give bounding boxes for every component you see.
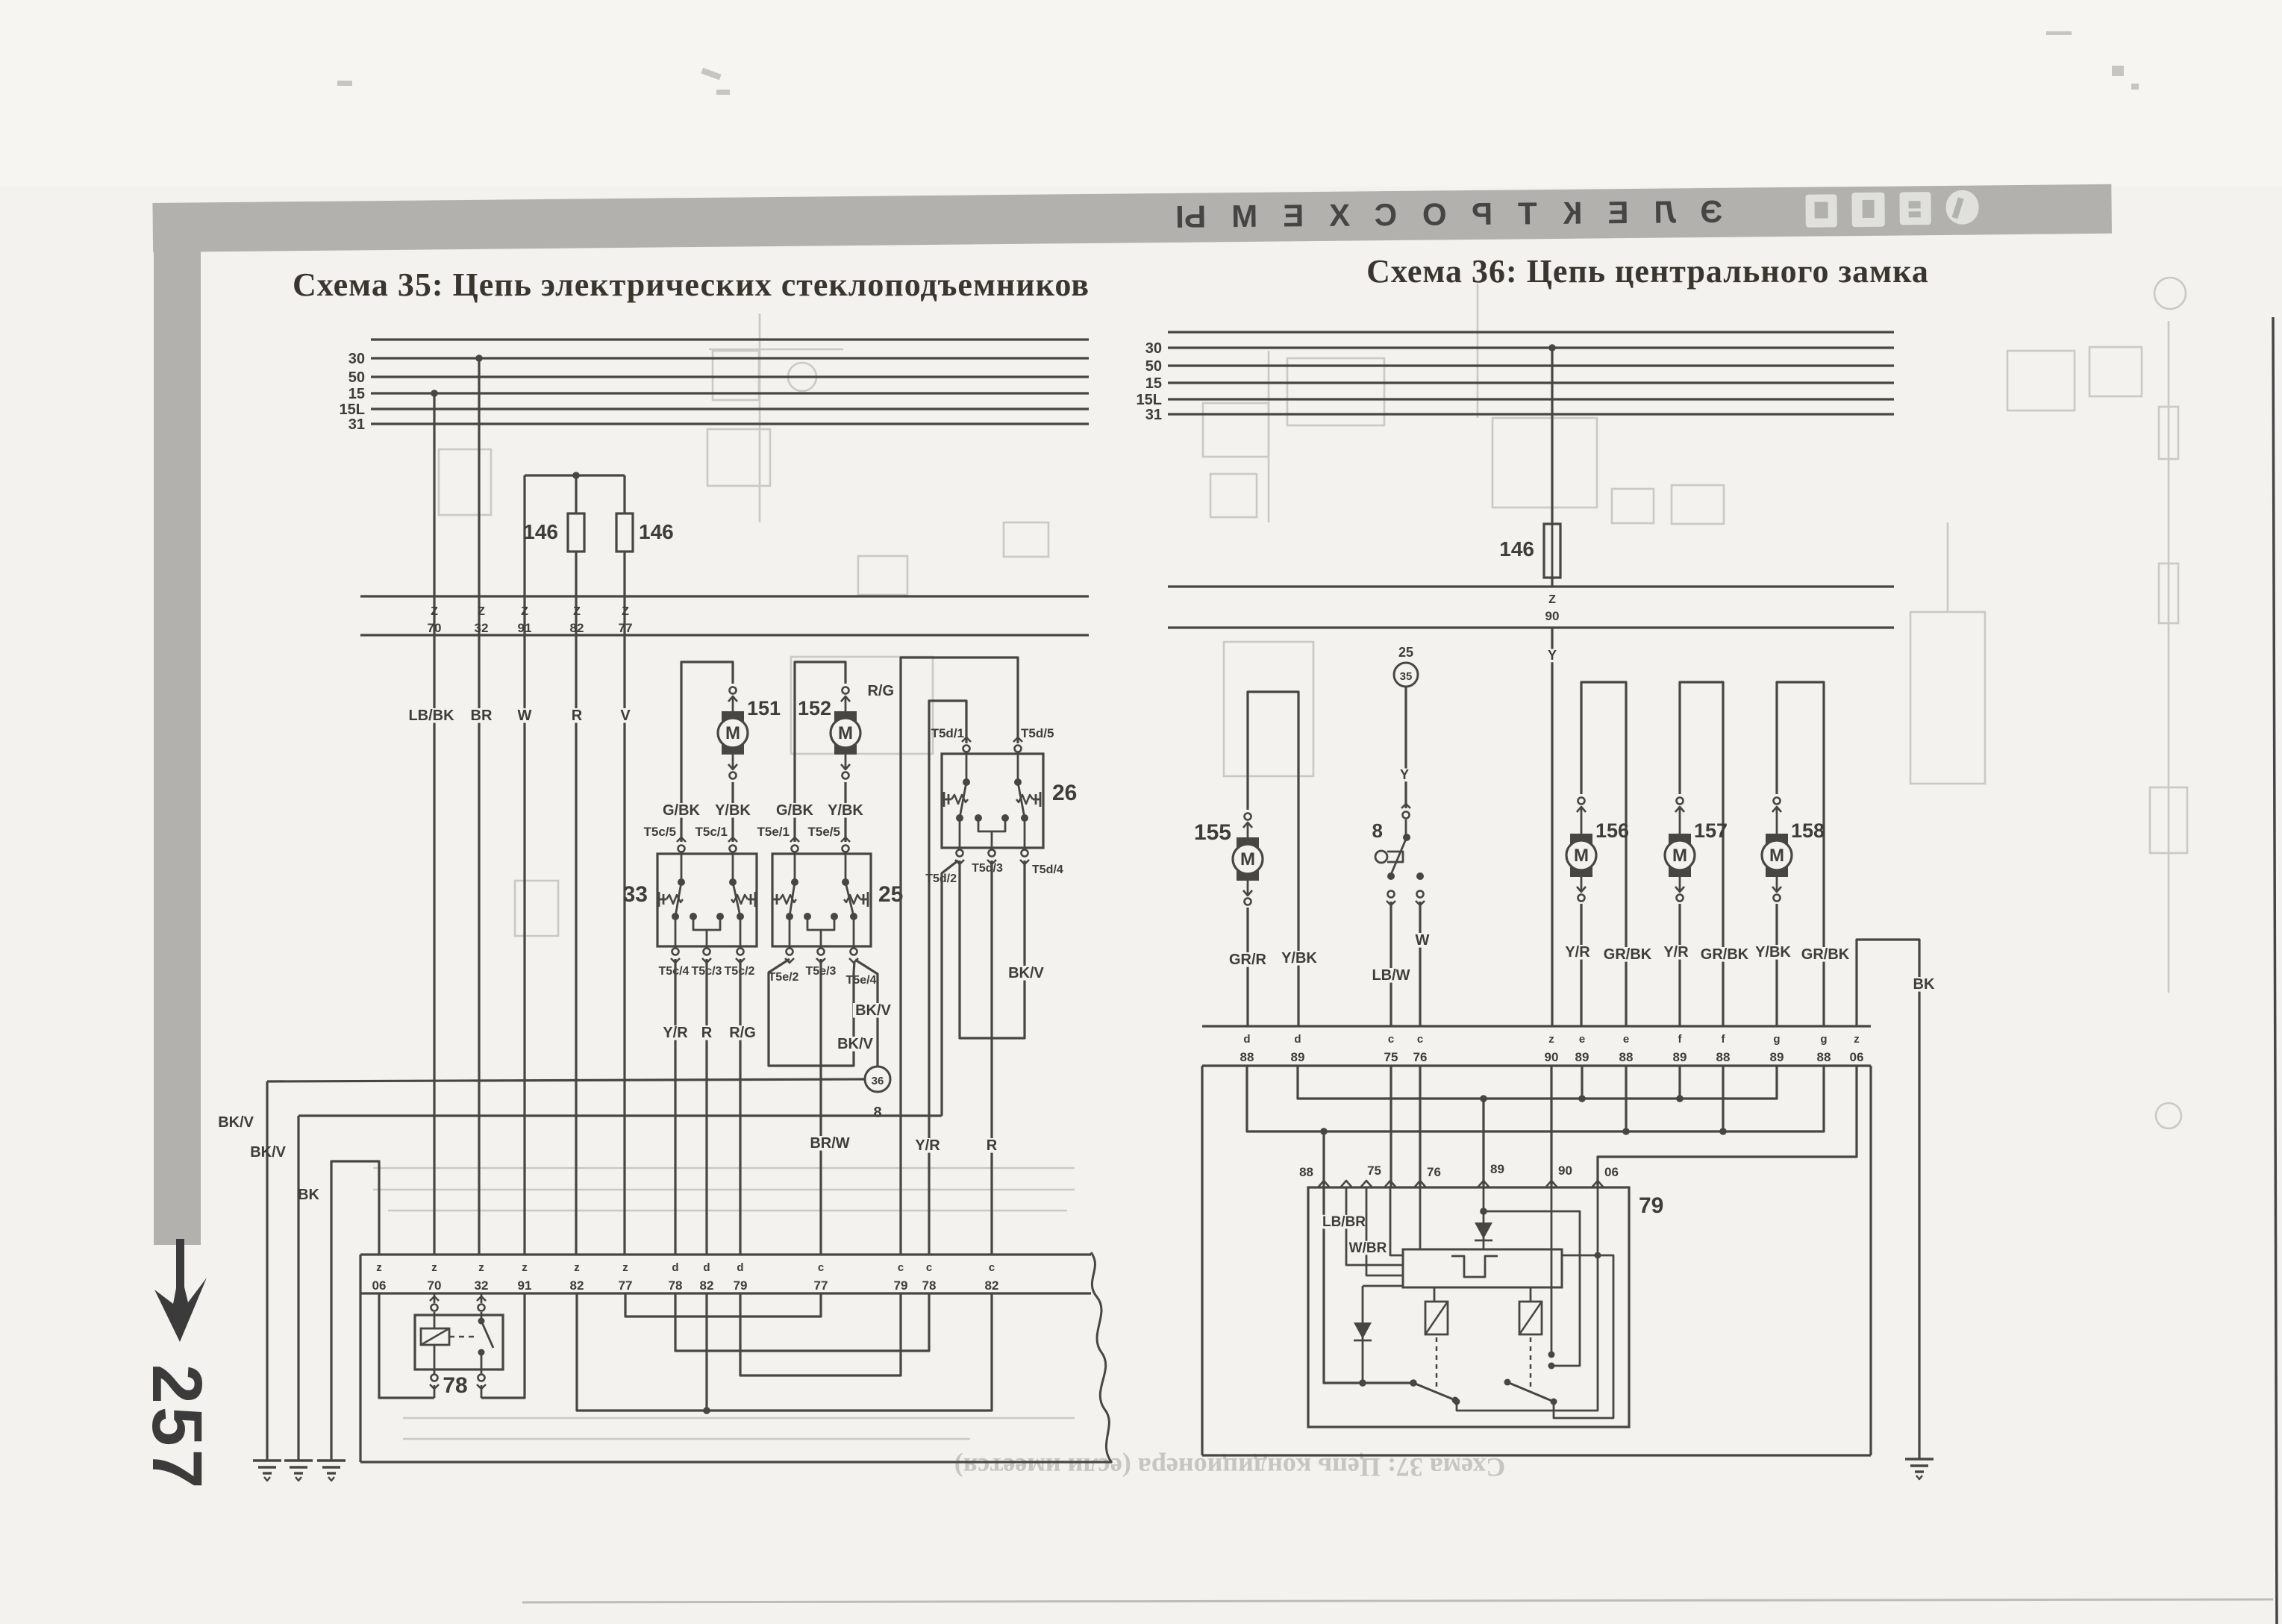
node junction fuse feed bbox=[572, 472, 580, 479]
right page edge line bbox=[2273, 317, 2277, 1624]
switch 33 pole 1 blade and contact bbox=[681, 854, 683, 882]
svg-text:88: 88 bbox=[1619, 1050, 1634, 1064]
wire fuse to Z-bus bbox=[1551, 578, 1553, 587]
svg-text:BK/V: BK/V bbox=[250, 1144, 286, 1161]
svg-text:158: 158 bbox=[1791, 819, 1825, 842]
svg-text:91: 91 bbox=[518, 1278, 532, 1293]
frame bottom line (scheme 36) bbox=[1202, 1454, 1871, 1456]
wire z91 below strip to relay switch return bbox=[481, 1293, 525, 1398]
svg-text:30: 30 bbox=[348, 351, 365, 367]
unit 79 dashed link coil2 bbox=[1530, 1337, 1532, 1387]
connector strip (scheme 35) upper line bbox=[360, 1253, 1091, 1255]
pin T5e/1 bbox=[792, 846, 798, 852]
page-number arrow pointing down bbox=[154, 1239, 207, 1342]
svg-text:Z: Z bbox=[431, 605, 438, 618]
wire Y/R from T5c/4 to strip d78 bbox=[674, 959, 676, 1255]
relay 78 dashed actuator link bbox=[449, 1336, 478, 1338]
wire GR/R motor 155 to strip d88 bbox=[1246, 908, 1248, 1026]
wire label BK/V on T5d/4 leg bbox=[1006, 966, 1046, 981]
svg-text:Y/R: Y/R bbox=[663, 1025, 688, 1041]
wire loop over motor 151 bbox=[681, 662, 733, 842]
svg-text:Y/BK: Y/BK bbox=[715, 802, 751, 819]
Z-bus lower line (scheme 35) bbox=[360, 634, 1089, 636]
wire loop over motor 155 bbox=[1248, 692, 1298, 1026]
ground symbol BK (scheme 36) bbox=[1905, 1458, 1934, 1460]
svg-text:T5d/3: T5d/3 bbox=[972, 862, 1003, 875]
svg-text:z: z bbox=[522, 1261, 528, 1274]
pin T5e/4 bbox=[851, 949, 857, 955]
ghost mirrored next-page title show-through bbox=[954, 1452, 1505, 1482]
svg-text:50: 50 bbox=[1145, 358, 1162, 375]
wire R/G from T5c/2 to strip d79 bbox=[739, 959, 741, 1255]
unit 79 pin 90 bbox=[1546, 1181, 1557, 1187]
svg-text:Z: Z bbox=[622, 605, 629, 618]
bus line 31 (scheme 36) bbox=[1168, 413, 1894, 415]
svg-text:T5d/4: T5d/4 bbox=[1032, 863, 1063, 876]
bus line 15L (scheme 36) bbox=[1168, 398, 1894, 400]
bottom page edge faint line bbox=[522, 1599, 2273, 1602]
strip left edge down to bottom bus bbox=[359, 1255, 361, 1462]
svg-text:Z: Z bbox=[478, 605, 485, 618]
connector below motor 152 bbox=[845, 755, 847, 769]
svg-text:e: e bbox=[1623, 1033, 1629, 1046]
svg-text:76: 76 bbox=[1413, 1050, 1428, 1064]
svg-text:GR/BK: GR/BK bbox=[1701, 946, 1749, 963]
svg-text:GR/R: GR/R bbox=[1229, 952, 1267, 968]
off-page connector to scheme 36 pin 8 bbox=[865, 1066, 890, 1092]
wire label BK bbox=[1913, 977, 1935, 992]
svg-text:BK: BK bbox=[1913, 976, 1935, 993]
svg-text:e: e bbox=[1579, 1033, 1585, 1046]
svg-text:R: R bbox=[701, 1025, 713, 1041]
svg-text:Y/BK: Y/BK bbox=[1281, 950, 1317, 966]
wire label BK/V lower bbox=[835, 1037, 875, 1052]
svg-text:78: 78 bbox=[922, 1278, 937, 1293]
svg-text:15: 15 bbox=[348, 386, 365, 402]
wire z06 to unit 79 pin 06 bbox=[1598, 1066, 1857, 1187]
svg-text:06: 06 bbox=[1850, 1050, 1864, 1064]
svg-text:T5c/4: T5c/4 bbox=[659, 965, 690, 978]
switch 25 pole 2 blade and contact bbox=[845, 854, 847, 882]
svg-text:W/BR: W/BR bbox=[1349, 1240, 1387, 1256]
lock switch 8 contacts bbox=[1387, 872, 1395, 880]
unit 79 wire pin06 to switch1 contact bbox=[1457, 1187, 1598, 1411]
connector above motor 155 bbox=[1245, 813, 1251, 820]
wire z90 to unit 79 pin 90 bbox=[1550, 1066, 1552, 1187]
wire loop T5e/2 to T5e/4 bbox=[769, 959, 854, 1066]
svg-text:152: 152 bbox=[798, 697, 831, 719]
wire net89 drop to unit 79 pin 89 bbox=[1482, 1099, 1484, 1187]
svg-text:146: 146 bbox=[1499, 537, 1534, 560]
svg-text:15L: 15L bbox=[340, 402, 365, 418]
wire BK/V from T5e/4 to off-page connector 36/8 bbox=[855, 960, 878, 1066]
bus line top unlabeled (scheme 36) bbox=[1168, 331, 1894, 333]
relay 78 feed pins bbox=[434, 1293, 436, 1303]
svg-text:Z: Z bbox=[573, 605, 581, 618]
unit 79 pin 75 bbox=[1385, 1181, 1395, 1187]
svg-text:V: V bbox=[620, 708, 631, 724]
svg-text:89: 89 bbox=[1490, 1162, 1504, 1176]
wire motor 156 to strip bbox=[1580, 904, 1582, 1026]
connector strip (scheme 36) upper line bbox=[1202, 1025, 1871, 1027]
strip left edge down (scheme 36 frame) bbox=[1201, 1066, 1203, 1455]
svg-text:31: 31 bbox=[348, 416, 365, 433]
wire label G/BK (motor151 left leg) bbox=[661, 803, 701, 818]
node junction on bus 15 at x582 bbox=[431, 390, 438, 397]
svg-text:Z: Z bbox=[521, 605, 528, 618]
svg-text:BR/W: BR/W bbox=[810, 1135, 849, 1152]
node junction on bus 30 at x642 bbox=[475, 355, 483, 362]
svg-text:70: 70 bbox=[428, 621, 442, 635]
wire label Y on z90 wire bbox=[1546, 649, 1559, 663]
svg-text:Схема 37: Цепь кондиционера (е: Схема 37: Цепь кондиционера (если имеетс… bbox=[954, 1452, 1505, 1482]
unit 79 suppression diode 1 on pin 89 bbox=[1483, 1187, 1485, 1249]
svg-text:90: 90 bbox=[1545, 609, 1560, 623]
svg-text:79: 79 bbox=[894, 1278, 908, 1293]
svg-text:BK: BK bbox=[298, 1187, 319, 1203]
unit 79 pin 89 bbox=[1478, 1181, 1489, 1187]
bus line 50 (scheme 35) bbox=[371, 375, 1089, 378]
unit 79 pin LB/BR stub bbox=[1341, 1181, 1351, 1187]
relay 78 box bbox=[415, 1315, 503, 1370]
wire R from T5c/3 to strip d82 bbox=[705, 959, 707, 1255]
svg-text:d: d bbox=[1294, 1033, 1301, 1046]
bus line 15 (scheme 36) bbox=[1168, 381, 1894, 384]
svg-text:LB/BK: LB/BK bbox=[408, 708, 454, 724]
pin T5c/3 bbox=[704, 949, 710, 955]
svg-text:LB/W: LB/W bbox=[1372, 967, 1410, 984]
svg-text:R: R bbox=[987, 1137, 998, 1154]
wire z06 below strip to relay coil return bbox=[379, 1293, 434, 1398]
svg-text:GR/BK: GR/BK bbox=[1604, 946, 1652, 963]
bus line 31 (scheme 35) bbox=[371, 422, 1089, 425]
svg-text:91: 91 bbox=[518, 621, 532, 635]
svg-text:T5d/1: T5d/1 bbox=[931, 726, 964, 740]
net 82 link below strip bbox=[577, 1293, 992, 1411]
bottom return bus line (scheme 35) bbox=[360, 1461, 1112, 1463]
unit 79 wire junction to right rail bbox=[1484, 1211, 1580, 1366]
svg-text:Y/BK: Y/BK bbox=[828, 802, 863, 819]
svg-text:Y/R: Y/R bbox=[915, 1137, 940, 1154]
svg-text:35: 35 bbox=[1400, 670, 1413, 683]
net 88 link below strip (scheme 36) bbox=[1247, 1066, 1824, 1131]
unit 79 suppression diode 2 bbox=[1362, 1286, 1364, 1383]
node junction on bus 30 at x2080 bbox=[1548, 344, 1556, 352]
pin T5e/2 bbox=[787, 949, 793, 955]
control unit 79 box bbox=[1308, 1187, 1629, 1427]
unit 79 dashed link coil1 bbox=[1436, 1337, 1438, 1390]
wire motor 157 to strip bbox=[1678, 904, 1681, 1026]
junction f88 bbox=[1722, 1066, 1724, 1131]
svg-text:89: 89 bbox=[1575, 1050, 1589, 1064]
wire c76 to unit 79 pin 76 bbox=[1419, 1066, 1421, 1187]
unit 79 switch 1 blade bbox=[1413, 1383, 1455, 1400]
junction f89 bbox=[1678, 1066, 1681, 1099]
unit 79 switch 2 blade bbox=[1504, 1379, 1511, 1386]
svg-text:26: 26 bbox=[1052, 781, 1077, 805]
svg-text:79: 79 bbox=[734, 1278, 748, 1293]
wire R/G outer loop to T5d/5 and down to strip c79 bbox=[901, 658, 1018, 1255]
svg-text:Y/BK: Y/BK bbox=[1755, 944, 1791, 961]
pin T5d/3 bbox=[989, 850, 995, 857]
svg-text:W: W bbox=[1416, 932, 1430, 949]
wire inner loop to T5d/1 and down to strip c78 (Y/R) bbox=[929, 701, 966, 1255]
svg-text:T5e/1: T5e/1 bbox=[757, 825, 790, 839]
svg-text:BR: BR bbox=[471, 708, 493, 724]
wire label G/BK (motor152 left leg) bbox=[775, 803, 815, 818]
connector above motor 152 bbox=[843, 687, 849, 694]
frame right edge (scheme 36) bbox=[1869, 1066, 1872, 1455]
svg-text:77: 77 bbox=[619, 1278, 633, 1293]
pin T5e/5 bbox=[843, 846, 849, 852]
pin T5d/2 bbox=[957, 850, 963, 857]
svg-text:c: c bbox=[926, 1261, 932, 1274]
svg-text:89: 89 bbox=[1291, 1050, 1305, 1064]
svg-text:146: 146 bbox=[523, 520, 558, 543]
connector below motor 155 bbox=[1247, 881, 1249, 895]
wire loop over motor 152 bbox=[795, 662, 845, 842]
svg-text:78: 78 bbox=[443, 1373, 467, 1398]
switch 26 pole 1 blade and contact bbox=[966, 754, 968, 782]
wire loop over motor 158 bbox=[1777, 682, 1824, 1026]
svg-text:z: z bbox=[574, 1261, 580, 1274]
wire R from T5d/3 to strip c82 bbox=[990, 861, 992, 1255]
svg-text:M: M bbox=[1574, 846, 1589, 866]
svg-text:90: 90 bbox=[1558, 1164, 1572, 1178]
wire label Y/BK (155 return) bbox=[1279, 951, 1319, 966]
svg-text:25: 25 bbox=[878, 882, 903, 907]
connector strip (scheme 35) lower line bbox=[360, 1292, 1091, 1294]
wire BK/V ground line B to T5d/2 bbox=[298, 1114, 942, 1116]
wire BK/V ground drop 1 bbox=[266, 1081, 268, 1461]
svg-text:146: 146 bbox=[639, 520, 674, 543]
motor M158 door lock actuator bbox=[1774, 798, 1781, 805]
svg-text:c: c bbox=[1417, 1033, 1423, 1046]
wire colour labels LB/BK BR W R V bbox=[407, 708, 456, 723]
svg-text:78: 78 bbox=[669, 1278, 683, 1293]
mirrored show-through lettering on banner bbox=[1150, 194, 1723, 234]
svg-text:c: c bbox=[989, 1261, 995, 1274]
svg-text:82: 82 bbox=[985, 1278, 999, 1293]
wire loop over motor 157 bbox=[1680, 682, 1723, 1026]
wire label BK/V upper bbox=[853, 1003, 893, 1018]
svg-text:155: 155 bbox=[1194, 820, 1231, 845]
motor M156 door lock actuator bbox=[1578, 798, 1585, 805]
svg-text:Схема 36: Цепь центрального за: Схема 36: Цепь центрального замка bbox=[1366, 253, 1929, 290]
wire label Y bbox=[1398, 769, 1411, 782]
wire T5d/2 to BK/V ground line bbox=[942, 861, 958, 1116]
switch 25 output contacts and bracket bbox=[786, 913, 793, 920]
bus line 15 (scheme 35) bbox=[371, 392, 1089, 394]
unit 79 pin 76 bbox=[1415, 1181, 1425, 1187]
ghost smudges bbox=[337, 31, 2139, 95]
svg-text:M: M bbox=[725, 723, 740, 743]
svg-text:G/BK: G/BK bbox=[776, 802, 814, 819]
motor M157 door lock actuator bbox=[1677, 798, 1684, 805]
svg-text:32: 32 bbox=[475, 621, 489, 635]
wire LB/W switch 8 to strip c75 bbox=[1389, 902, 1392, 1026]
unit 79 central relay block bbox=[1403, 1249, 1562, 1287]
svg-text:75: 75 bbox=[1384, 1050, 1398, 1064]
svg-text:R: R bbox=[572, 708, 583, 724]
svg-text:06: 06 bbox=[372, 1278, 387, 1293]
Z-bus lower line (scheme 36) bbox=[1168, 626, 1894, 628]
wire W switch 8 to strip c76 bbox=[1419, 902, 1421, 1026]
motor M155 central locking bbox=[1247, 823, 1249, 837]
svg-text:88: 88 bbox=[1716, 1050, 1731, 1064]
ghost bleed-through shapes from reverse page bbox=[373, 278, 2187, 1439]
relay 78 switch bbox=[481, 1315, 483, 1321]
unit 79 pin 06 bbox=[1592, 1181, 1603, 1187]
svg-text:70: 70 bbox=[428, 1278, 442, 1293]
lock switch 8 bbox=[1405, 819, 1407, 837]
svg-text:06: 06 bbox=[1604, 1165, 1619, 1179]
svg-text:82: 82 bbox=[700, 1278, 714, 1293]
svg-text:d: d bbox=[737, 1261, 743, 1274]
switch 33 pole 2 blade and contact bbox=[732, 854, 734, 882]
svg-text:M: M bbox=[838, 723, 853, 743]
svg-text:36: 36 bbox=[872, 1075, 884, 1087]
wire from bus 30 down to fuse 146 bbox=[1551, 348, 1553, 524]
svg-text:c: c bbox=[898, 1261, 904, 1274]
wire label Y/BK (motor151 right leg) bbox=[713, 803, 753, 818]
svg-text:M: M bbox=[1672, 846, 1687, 866]
wire loop over motor 156 bbox=[1581, 682, 1626, 1026]
svg-text:c: c bbox=[818, 1261, 824, 1274]
svg-text:257: 257 bbox=[137, 1364, 216, 1492]
svg-text:33: 33 bbox=[623, 882, 648, 907]
svg-text:79: 79 bbox=[1639, 1193, 1663, 1218]
svg-text:30: 30 bbox=[1145, 340, 1162, 357]
wire Y from Z-bus down to strip z90 bbox=[1551, 628, 1553, 1026]
svg-text:31: 31 bbox=[1145, 407, 1162, 423]
net 77 link below strip bbox=[625, 1293, 821, 1317]
svg-text:BK/V: BK/V bbox=[218, 1114, 254, 1131]
svg-text:82: 82 bbox=[570, 621, 584, 635]
wire BK/V ground drop 2 bbox=[297, 1116, 299, 1461]
pin T5c/4 bbox=[672, 949, 679, 955]
svg-text:c: c bbox=[1388, 1033, 1394, 1046]
wire motor 158 to strip bbox=[1775, 904, 1778, 1026]
svg-text:8: 8 bbox=[1372, 819, 1383, 842]
svg-text:88: 88 bbox=[1299, 1165, 1313, 1179]
svg-text:Схема 35: Цепь электрических с: Схема 35: Цепь электрических стеклоподъе… bbox=[293, 266, 1090, 303]
svg-text:156: 156 bbox=[1595, 819, 1629, 842]
Z-bus upper line (scheme 36) bbox=[1168, 585, 1894, 587]
svg-text:T5e/2: T5e/2 bbox=[769, 971, 799, 984]
svg-text:LB/BR: LB/BR bbox=[1322, 1214, 1366, 1230]
left margin grey bar bbox=[154, 237, 201, 1245]
unit 79 wire pin75 to block bbox=[1390, 1187, 1403, 1255]
svg-text:d: d bbox=[672, 1261, 678, 1274]
svg-text:d: d bbox=[703, 1261, 710, 1274]
relay 78 coil bbox=[434, 1315, 436, 1328]
svg-text:z: z bbox=[622, 1261, 628, 1274]
pin T5d/4 bbox=[1022, 850, 1028, 857]
connector strip torn wavy edge bbox=[1091, 1252, 1112, 1463]
net 78 link below strip bbox=[675, 1293, 929, 1351]
net 79 link below strip bbox=[740, 1293, 901, 1375]
wire BK from strip z06 to ground bbox=[331, 1161, 379, 1461]
svg-text:ЭЛЕКТРОСХЕМЫ: ЭЛЕКТРОСХЕМЫ bbox=[1150, 194, 1723, 234]
relay 78 output pins bbox=[434, 1370, 436, 1375]
switch 33 output contacts and bracket bbox=[672, 913, 679, 920]
wire BK from strip z06 over to ground bbox=[1857, 940, 1919, 1459]
junction e89 bbox=[1581, 1066, 1583, 1099]
wire W fuse-box left leg down to strip z91 bbox=[523, 475, 525, 1255]
unit 79 wire pin90 to changeover contact bbox=[1551, 1187, 1553, 1355]
svg-text:89: 89 bbox=[1770, 1050, 1784, 1064]
svg-text:M: M bbox=[1769, 846, 1784, 866]
svg-text:z: z bbox=[1854, 1033, 1860, 1046]
pin T5d/1 bbox=[963, 746, 970, 752]
wire Y/BK motor 152 to switch 25 pin T5e/5 bbox=[844, 782, 846, 842]
pin T5c/5 bbox=[678, 846, 685, 852]
svg-text:15: 15 bbox=[1145, 375, 1162, 392]
svg-text:z: z bbox=[1548, 1033, 1554, 1046]
svg-text:BK/V: BK/V bbox=[837, 1036, 873, 1052]
svg-text:R/G: R/G bbox=[729, 1025, 756, 1041]
svg-text:T5e/4: T5e/4 bbox=[846, 974, 877, 987]
Z-bus upper line (scheme 35) bbox=[360, 595, 1089, 597]
switch 26 pole 2 blade and contact bbox=[1017, 754, 1019, 782]
fuse box top wire bbox=[525, 474, 625, 476]
svg-text:BK/V: BK/V bbox=[1008, 965, 1044, 981]
svg-text:77: 77 bbox=[619, 621, 633, 635]
wire c75 to unit 79 pin 75 bbox=[1389, 1066, 1392, 1187]
net 89 link below strip (scheme 36) bbox=[1298, 1066, 1777, 1099]
svg-text:25: 25 bbox=[1398, 645, 1413, 660]
unit 79 wire W/BR bbox=[1366, 1187, 1403, 1275]
svg-text:M: M bbox=[1240, 849, 1255, 869]
mirrored white logo blocks on banner bbox=[1805, 190, 1978, 228]
svg-text:Y/R: Y/R bbox=[1565, 944, 1590, 961]
motor M152 bbox=[845, 697, 847, 711]
wire label Y/R at strip c78 bbox=[912, 1138, 943, 1153]
svg-text:T5d/5: T5d/5 bbox=[1021, 726, 1054, 740]
wire LB/BK from bus 15 down to connector strip z70 bbox=[433, 393, 435, 1255]
svg-text:T5c/1: T5c/1 bbox=[695, 825, 728, 839]
switch unit 26 outline bbox=[942, 754, 1043, 848]
svg-text:88: 88 bbox=[1240, 1050, 1254, 1064]
svg-text:T5c/5: T5c/5 bbox=[644, 825, 676, 839]
bus line 30 (scheme 35) bbox=[371, 357, 1089, 359]
svg-text:75: 75 bbox=[1367, 1164, 1381, 1178]
switch 26 output contacts and bracket bbox=[956, 814, 963, 822]
wire label R at strip c82 bbox=[985, 1138, 998, 1153]
svg-text:g: g bbox=[1820, 1033, 1827, 1046]
wire net88 drop to unit 79 pin 88 bbox=[1322, 1131, 1325, 1187]
wire loop T5d/2 to T5d/4 via BK/V bbox=[960, 861, 1025, 1038]
wire BR/W from T5e/3 to strip c77 bbox=[819, 959, 822, 1255]
pin T5c/2 bbox=[737, 949, 744, 955]
unit 79 pin 88 bbox=[1319, 1181, 1329, 1187]
pin T5c/1 bbox=[730, 846, 737, 852]
svg-text:z: z bbox=[376, 1261, 382, 1274]
unit 79 wire pin88 to switch 1 bbox=[1324, 1187, 1413, 1383]
bus line top unlabeled (scheme 35) bbox=[371, 338, 1089, 340]
unit 79 wire LB/BR bbox=[1346, 1187, 1403, 1265]
unit 79 relay coil 2 bbox=[1519, 1302, 1542, 1334]
svg-text:82: 82 bbox=[570, 1278, 584, 1293]
connector below motor 151 bbox=[732, 755, 734, 769]
lock switch 8 connector bbox=[1403, 812, 1410, 819]
top grey banner bar bbox=[152, 184, 2112, 252]
junction net82 at d82 bbox=[705, 1293, 707, 1411]
svg-text:8: 8 bbox=[873, 1105, 881, 1121]
svg-text:g: g bbox=[1773, 1033, 1780, 1046]
pin T5e/3 bbox=[818, 949, 825, 955]
